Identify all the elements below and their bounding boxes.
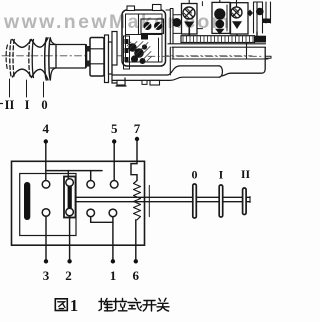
knob left end cap xyxy=(6,45,7,70)
dark bar xyxy=(24,182,30,220)
wire 1 xyxy=(112,222,114,261)
svg-text:3: 3 xyxy=(43,268,50,283)
housing divider xyxy=(126,14,163,35)
shaft line bottom xyxy=(76,201,251,203)
cap B2 xyxy=(215,20,224,29)
spring xyxy=(134,181,141,220)
screw A xyxy=(183,7,195,19)
cap B1 xyxy=(214,8,225,19)
svg-text:I: I xyxy=(25,98,30,112)
stem above B xyxy=(219,0,221,2)
body centerline xyxy=(148,55,262,57)
bracket band xyxy=(112,66,219,75)
collar xyxy=(85,45,87,67)
svg-text:1: 1 xyxy=(110,268,117,283)
bar stems xyxy=(246,43,248,59)
block B inner edge xyxy=(226,5,228,31)
bridge core xyxy=(68,186,72,208)
svg-text:II: II xyxy=(241,167,251,181)
post screw xyxy=(172,18,181,27)
terminal block B xyxy=(212,2,230,33)
disc II (dashed) xyxy=(10,40,11,78)
screw a xyxy=(144,22,152,30)
wire c7-c8 connector xyxy=(91,217,113,222)
svg-text:7: 7 xyxy=(134,121,141,136)
inner right line xyxy=(158,38,160,62)
dot 5 xyxy=(112,139,116,143)
dot 1 xyxy=(111,259,115,263)
dot 3 xyxy=(44,259,48,263)
right channel cap xyxy=(263,19,271,24)
svg-text:I: I xyxy=(219,168,224,182)
wire 2 xyxy=(69,216,71,261)
disc I xyxy=(29,40,30,78)
bracket front foot xyxy=(112,65,126,86)
channel screw xyxy=(256,8,264,16)
disc II xyxy=(243,188,247,215)
body top xyxy=(168,44,266,47)
bearing line xyxy=(148,185,150,216)
hex nut xyxy=(90,38,104,77)
contact c7 xyxy=(87,209,95,217)
housing top tab 2 xyxy=(153,5,162,11)
screw b xyxy=(154,22,162,30)
caption 式 xyxy=(128,298,142,310)
stem to c2 xyxy=(67,171,69,179)
caption 拉 xyxy=(114,299,128,311)
stem under C xyxy=(236,29,238,36)
stem above C xyxy=(236,0,238,7)
handle cap xyxy=(219,66,222,77)
bracket foot mid xyxy=(142,80,147,84)
svg-text:0: 0 xyxy=(41,98,47,112)
contact c1 xyxy=(42,181,50,189)
contact c4 xyxy=(110,181,118,189)
bracket foot right xyxy=(150,80,160,85)
body mid seam xyxy=(172,58,268,60)
contact c5 xyxy=(42,209,50,217)
diamond right of C xyxy=(247,10,253,17)
disc 0 (flange) xyxy=(45,38,47,80)
triangle under C xyxy=(232,21,242,29)
leader line I xyxy=(26,80,28,97)
terminal block A xyxy=(182,4,198,35)
contact c6 xyxy=(66,208,74,216)
shaft line top xyxy=(76,196,251,198)
shaft tip xyxy=(266,56,272,58)
flange bell xyxy=(50,38,56,79)
housing top tab 1 xyxy=(127,6,135,11)
bus xyxy=(46,170,102,172)
post xyxy=(166,9,173,44)
leader line II xyxy=(9,79,11,97)
inner rect xyxy=(20,174,76,236)
wire 7 jog xyxy=(131,141,137,181)
svg-text:II: II xyxy=(5,98,15,112)
dot 6 xyxy=(134,259,138,263)
wire 4 xyxy=(45,144,47,181)
right channel xyxy=(266,2,271,23)
disc 0 xyxy=(193,184,197,218)
svg-text:6: 6 xyxy=(133,268,140,283)
contact c2 xyxy=(66,179,74,187)
caption 图 xyxy=(55,299,67,311)
housing xyxy=(122,10,166,66)
svg-text:4: 4 xyxy=(43,121,50,136)
stem to c3 xyxy=(90,171,92,181)
shaft end xyxy=(249,197,251,203)
dot 7 xyxy=(135,137,139,141)
wire 6 xyxy=(135,220,137,261)
shaft xyxy=(51,45,86,69)
triangle under A xyxy=(184,22,195,29)
bar dark end xyxy=(255,36,267,43)
stem above A xyxy=(188,0,190,4)
mounting plate xyxy=(112,32,117,66)
screw box xyxy=(141,19,164,34)
bracket foot left xyxy=(117,80,125,85)
wire 3 xyxy=(45,217,47,262)
svg-text:2: 2 xyxy=(65,268,72,283)
schematic box xyxy=(12,161,145,245)
contact c8 xyxy=(109,209,117,217)
disc I xyxy=(219,185,223,217)
screw C xyxy=(231,7,242,18)
left margin dash xyxy=(0,103,3,105)
svg-text:1: 1 xyxy=(70,296,78,315)
washer 2 xyxy=(109,42,113,74)
body bottom xyxy=(222,48,265,76)
leader line 0 xyxy=(43,82,45,97)
washer 1 xyxy=(105,35,109,83)
terminal bar xyxy=(181,36,255,43)
tick A-B xyxy=(197,2,203,29)
bridge xyxy=(64,177,76,218)
svg-text:5: 5 xyxy=(111,121,118,136)
cam block xyxy=(141,34,148,40)
svg-text:0: 0 xyxy=(192,168,198,182)
terminal block C xyxy=(231,3,249,34)
contact strip xyxy=(124,36,130,69)
dot 4 xyxy=(44,139,48,143)
housing inner frame xyxy=(126,14,163,62)
caption 关 xyxy=(157,298,169,311)
channel piece xyxy=(254,2,263,33)
caption 开 xyxy=(143,301,156,312)
dot 2 xyxy=(67,259,71,263)
gear cluster xyxy=(128,43,136,51)
knob silhouette xyxy=(13,38,49,48)
wire 5 xyxy=(113,144,115,181)
centerline xyxy=(2,55,252,57)
caption 推 xyxy=(99,299,113,312)
contact c3 xyxy=(87,181,95,189)
triangle under B xyxy=(215,29,225,35)
